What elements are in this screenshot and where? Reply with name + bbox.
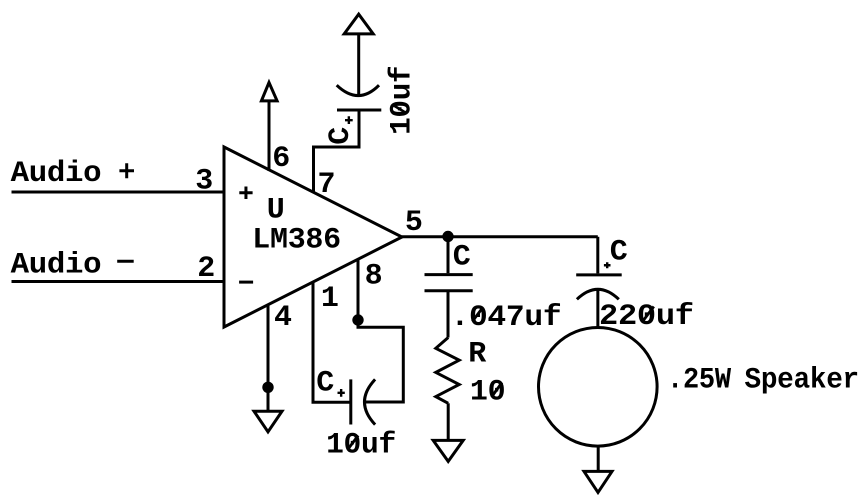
capacitor C4 straight plate (349, 379, 352, 424)
svg-text:1: 1 (321, 282, 339, 316)
speaker LS1 circle (539, 328, 658, 447)
plus sign of Audio + (119, 163, 134, 178)
op-amp plus input marker (239, 187, 252, 200)
junction node output (442, 231, 453, 242)
svg-text:U: U (267, 193, 285, 227)
svg-text:6: 6 (272, 142, 290, 176)
wire to C3 (596, 237, 599, 274)
svg-text:C: C (316, 367, 334, 401)
ground pin4 (254, 411, 282, 432)
capacitor C4 curved plate (365, 379, 376, 424)
wire C2 to R1 (447, 291, 450, 338)
wire speaker to ground (597, 446, 600, 471)
C3 polarity plus (604, 262, 611, 268)
slash of zero in rotated 10uf (393, 105, 406, 113)
power arrow VCC (344, 14, 373, 34)
minus sign of Audio - (117, 260, 134, 263)
junction node pin 8 (352, 314, 363, 325)
wire output to C2 (447, 237, 450, 273)
capacitor C1 straight plate (337, 109, 381, 112)
wire pin 7 bend (314, 110, 360, 192)
capacitor C1 curved plate (337, 85, 379, 95)
svg-text:10: 10 (470, 376, 505, 410)
svg-text:LM386: LM386 (252, 224, 341, 258)
svg-text:C: C (453, 241, 471, 275)
svg-text:5: 5 (405, 206, 423, 240)
slash of zero in R value 10 (492, 383, 503, 398)
svg-text:Speaker: Speaker (745, 364, 859, 398)
svg-text:10uf: 10uf (326, 429, 396, 463)
capacitor C3 curved plate (577, 289, 619, 299)
wire pin 8 down and loop to C4 (358, 259, 403, 402)
wire audio+ input (12, 191, 225, 194)
svg-text:.25W: .25W (667, 364, 731, 398)
op-amp minus input marker (239, 281, 253, 284)
svg-text:8: 8 (365, 260, 383, 294)
wire C3 to speaker (596, 289, 599, 328)
svg-text:.047uf: .047uf (451, 301, 562, 335)
svg-text:C: C (324, 127, 358, 145)
wire pin 5 output (402, 235, 598, 238)
svg-text:4: 4 (274, 301, 292, 335)
junction node pin 4 (262, 382, 273, 393)
ground speaker (584, 471, 612, 492)
op-amp U1 LM386 triangle (224, 147, 402, 327)
wire pin 6 riser (268, 101, 271, 171)
svg-text:C: C (610, 236, 628, 270)
wire VCC riser (357, 34, 360, 97)
wire R1 to ground (447, 403, 450, 440)
C4 polarity plus (338, 389, 345, 397)
svg-text:2: 2 (197, 252, 215, 286)
capacitor C3 straight plate (576, 273, 622, 276)
ground R1 (433, 440, 463, 461)
slash of zero in 220uf (643, 307, 654, 321)
svg-text:10uf: 10uf (386, 66, 420, 135)
C1 polarity plus (345, 116, 353, 124)
resistor R1 zigzag (436, 338, 459, 404)
svg-text:Audio: Audio (11, 157, 102, 191)
capacitor C2 bottom plate (425, 289, 473, 292)
svg-text:3: 3 (195, 165, 213, 199)
power arrow at pin 6 (261, 83, 277, 101)
svg-text:7: 7 (318, 168, 336, 202)
wire pin 1 down (313, 282, 351, 402)
svg-text:R: R (468, 337, 486, 371)
capacitor C2 top plate (425, 273, 473, 276)
slash of zero in bottom 10uf (348, 436, 359, 450)
slash of zero in .047uf (472, 308, 483, 322)
svg-text:Audio: Audio (11, 249, 102, 283)
wire audio- input (12, 280, 225, 283)
wire pin 4 down (267, 305, 270, 411)
